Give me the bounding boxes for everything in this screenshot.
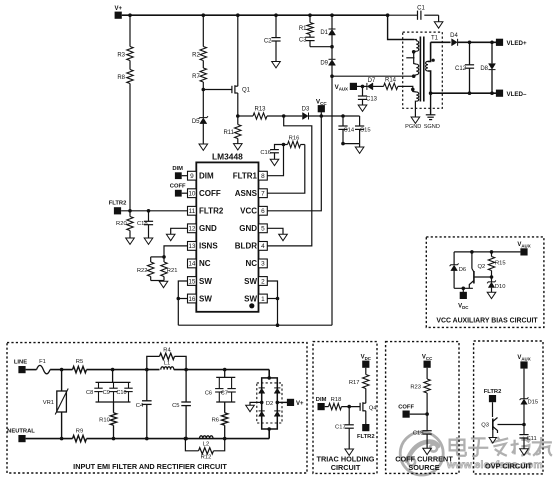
wire C3 to D1-D9 node xyxy=(310,46,332,48)
wire D9 node to transformer primary tap xyxy=(332,75,414,77)
svg-text:R21: R21 xyxy=(167,268,178,274)
wire SW vertical from D9 node xyxy=(331,76,333,325)
resistor R9 xyxy=(73,435,87,441)
wire secondary low side xyxy=(428,71,431,93)
svg-text:C6: C6 xyxy=(205,390,212,396)
svg-text:13: 13 xyxy=(188,243,196,250)
svg-text:NC: NC xyxy=(199,259,211,268)
resistor R12 bypass xyxy=(185,439,198,451)
transistor Q2 xyxy=(471,252,473,269)
svg-text:R6: R6 xyxy=(212,418,219,424)
pin 11 box xyxy=(188,206,197,215)
node VLED- terminal xyxy=(496,90,503,97)
node D9 anode junction xyxy=(331,65,333,76)
capacitor C14 xyxy=(341,114,345,118)
resistor R21 xyxy=(163,257,165,262)
node V+ input terminal xyxy=(115,12,122,19)
svg-text:V+: V+ xyxy=(296,401,304,407)
resistor R2 xyxy=(202,15,204,46)
wire to bridge top xyxy=(268,370,270,378)
svg-text:C18: C18 xyxy=(137,221,148,227)
svg-text:DIM: DIM xyxy=(172,166,183,172)
svg-text:R3: R3 xyxy=(117,53,125,59)
svg-text:ASNS: ASNS xyxy=(235,189,258,198)
capacitor bank C8 C9 C10 buses xyxy=(112,370,114,383)
transformer primary winding lower xyxy=(414,52,417,64)
capacitor C12 xyxy=(469,42,471,65)
ground below C18 xyxy=(144,238,153,244)
pin 12 box xyxy=(188,224,197,233)
pin 1 box xyxy=(259,294,268,303)
transformer auxiliary winding xyxy=(398,86,417,92)
svg-text:9: 9 xyxy=(190,173,194,180)
wire pin 4 BLDR xyxy=(267,116,312,246)
transformer secondary winding xyxy=(426,61,428,71)
svg-text:SGND: SGND xyxy=(424,124,440,130)
svg-text:15: 15 xyxy=(188,278,196,285)
svg-text:R18: R18 xyxy=(331,397,342,403)
node VAUX terminal xyxy=(350,83,357,90)
svg-text:D9: D9 xyxy=(320,61,328,67)
svg-text:FLTR2: FLTR2 xyxy=(199,207,224,216)
svg-text:14: 14 xyxy=(188,261,196,268)
wire F1 to VR1 node xyxy=(50,369,72,371)
diode D8 xyxy=(491,42,493,63)
wire bottom rail xyxy=(87,438,270,440)
svg-text:D8: D8 xyxy=(480,66,488,72)
svg-text:D10: D10 xyxy=(495,284,506,290)
ground below C15 xyxy=(359,144,361,147)
node V+ output terminal xyxy=(287,399,294,406)
svg-text:R10: R10 xyxy=(99,418,110,424)
svg-text:1: 1 xyxy=(261,296,265,303)
svg-text:VR1: VR1 xyxy=(43,400,54,406)
wire sense resistor common xyxy=(151,280,164,282)
wire bias bottom xyxy=(454,287,473,289)
capacitor C4 xyxy=(146,370,148,401)
wire pin 7 ASNS xyxy=(267,145,305,194)
varistor VR1 xyxy=(61,370,63,391)
svg-text:DIM: DIM xyxy=(199,172,214,181)
wire R8 to FLTR2 node xyxy=(129,84,131,211)
bridge diode upper right xyxy=(274,387,280,389)
diode D1 xyxy=(331,15,333,29)
ground below C19 xyxy=(423,448,432,454)
watermark logo circle xyxy=(400,432,443,475)
resistor R17 xyxy=(365,368,367,375)
svg-text:VAUX: VAUX xyxy=(517,242,530,248)
wire L1 to C6 node xyxy=(174,369,269,371)
svg-text:PGND: PGND xyxy=(405,124,421,130)
zener diode D5 xyxy=(202,90,204,118)
svg-text:LM3448: LM3448 xyxy=(212,151,243,161)
svg-text:R8: R8 xyxy=(117,75,125,81)
resistor R3 xyxy=(129,15,131,46)
wire FLTR2 to pin 11 xyxy=(121,210,187,212)
capacitor C15 xyxy=(359,116,361,126)
svg-text:VCC AUXILIARY BIAS CIRCUIT: VCC AUXILIARY BIAS CIRCUIT xyxy=(436,317,538,324)
ground below C13 xyxy=(358,105,367,111)
svg-text:L1: L1 xyxy=(164,360,170,366)
svg-text:SW: SW xyxy=(199,277,212,286)
pin 13 box xyxy=(188,242,197,251)
svg-text:Q2: Q2 xyxy=(478,264,486,270)
op-amp U1 LM3448 controller IC body xyxy=(196,162,258,311)
wire SW pins 1 2 bracket xyxy=(267,281,277,325)
dashed box OVP circuit xyxy=(474,341,543,474)
wire R15 to base node xyxy=(491,271,493,282)
svg-text:SW: SW xyxy=(244,277,257,286)
resistor R14 xyxy=(373,85,384,87)
wire SW pins 15 16 bracket xyxy=(178,281,187,325)
resistor R8 xyxy=(129,61,131,70)
node VCC terminal xyxy=(320,112,322,116)
diode D4 xyxy=(457,39,459,46)
bridge rectifier D2 outline xyxy=(262,378,278,429)
ground SGND xyxy=(426,114,436,116)
resistor R16 xyxy=(284,144,288,146)
node COFF terminal xyxy=(175,190,182,197)
pin 7 box xyxy=(259,189,268,198)
svg-text:10: 10 xyxy=(188,191,196,198)
pin 3 box xyxy=(259,259,268,268)
ground below C17 xyxy=(345,449,354,455)
wire C14 C15 common xyxy=(343,143,360,145)
resistor R15 xyxy=(491,252,493,257)
wire R23 to COFF node xyxy=(426,393,428,431)
svg-text:SW: SW xyxy=(199,294,212,303)
ground at bridge xyxy=(246,405,255,411)
svg-text:R14: R14 xyxy=(385,78,397,84)
svg-text:12: 12 xyxy=(188,226,196,233)
resistor R5 xyxy=(73,366,87,372)
wire COFF to node xyxy=(410,413,427,415)
svg-text:COFF: COFF xyxy=(199,189,221,198)
wire R13 to BLDR node xyxy=(267,115,302,117)
resistor R10 xyxy=(113,402,115,413)
svg-text:C5: C5 xyxy=(172,403,179,409)
svg-text:4: 4 xyxy=(261,243,265,250)
svg-text:VCC: VCC xyxy=(422,355,433,361)
resistor R18 xyxy=(325,406,329,408)
svg-text:C11: C11 xyxy=(527,436,537,442)
svg-text:T1: T1 xyxy=(431,36,439,42)
svg-text:7: 7 xyxy=(261,191,265,198)
node DIM terminal xyxy=(175,172,182,179)
ground below C11 xyxy=(520,449,529,455)
node VCC terminal current source xyxy=(424,361,431,368)
svg-text:D4: D4 xyxy=(450,33,458,39)
resistor R23 xyxy=(426,368,428,379)
svg-text:C9: C9 xyxy=(103,390,110,396)
wire R5 to cap bank xyxy=(87,369,160,371)
wire pin 5 GND xyxy=(267,228,283,234)
wire bridge to V+ out xyxy=(277,401,287,403)
wire pin 12 GND xyxy=(171,228,188,234)
svg-text:D7: D7 xyxy=(368,78,376,84)
diode D9 xyxy=(329,58,336,60)
svg-text:D3: D3 xyxy=(302,107,310,113)
svg-text:D1: D1 xyxy=(320,30,328,36)
transistor Q1 N-MOSFET xyxy=(237,15,239,86)
svg-text:ISNS: ISNS xyxy=(199,242,218,251)
svg-text:GND: GND xyxy=(199,224,217,233)
bridge diode upper left xyxy=(259,387,265,389)
svg-text:C4: C4 xyxy=(136,403,144,409)
svg-text:VLED–: VLED– xyxy=(507,91,528,98)
wire bridge to ground arrow xyxy=(250,402,262,405)
svg-text:C17: C17 xyxy=(335,425,346,431)
node D1-D9 junction xyxy=(331,35,333,59)
ground below sense resistors xyxy=(159,281,168,287)
pin 4 box xyxy=(259,242,268,251)
capacitor C8 xyxy=(98,382,100,388)
resistor R22 xyxy=(150,257,152,262)
svg-text:V+: V+ xyxy=(114,6,122,12)
wire D3 to VCC node xyxy=(309,115,360,117)
wire V+ rail to transformer primary xyxy=(388,15,415,39)
svg-text:COFF: COFF xyxy=(398,404,414,410)
svg-text:R23: R23 xyxy=(410,385,421,391)
resistor R7 xyxy=(202,61,204,69)
svg-text:R9: R9 xyxy=(76,429,83,435)
svg-text:VDC: VDC xyxy=(361,355,372,361)
svg-text:C1: C1 xyxy=(417,6,425,12)
svg-text:VDC: VDC xyxy=(458,304,469,310)
capacitor C13 xyxy=(362,86,364,96)
svg-text:6: 6 xyxy=(261,208,265,215)
watermark text xyxy=(446,437,552,471)
capacitor C5 xyxy=(185,370,187,402)
node VAUX terminal bias xyxy=(520,248,527,255)
node NEUTRAL terminal xyxy=(18,435,25,442)
ground below C1 xyxy=(438,15,440,22)
wire pin 8 FLTR1 xyxy=(267,145,283,176)
svg-text:R12: R12 xyxy=(201,455,212,461)
svg-text:R1: R1 xyxy=(299,26,307,32)
resistor R20 xyxy=(129,211,131,217)
svg-text:C10: C10 xyxy=(116,390,126,396)
node bridge mid-left junction xyxy=(260,401,264,405)
wire R7 to Q1 gate node xyxy=(202,82,204,90)
transformer primary tap stub xyxy=(406,57,414,59)
node FLTR2 OVP terminal xyxy=(489,395,496,402)
bridge rectifier D2 dashed box xyxy=(257,383,282,423)
diode D3 xyxy=(308,113,310,120)
wire D15 to OVP node xyxy=(523,404,525,434)
pin 6 box xyxy=(259,206,268,215)
transformer T1 dashed box xyxy=(403,32,443,108)
svg-text:SW: SW xyxy=(244,294,257,303)
pin 5 box xyxy=(259,224,268,233)
node VLED+ terminal xyxy=(496,39,503,46)
svg-text:R22: R22 xyxy=(137,268,148,274)
svg-text:R17: R17 xyxy=(349,380,360,386)
svg-text:Q1: Q1 xyxy=(242,88,251,94)
pin 1 marker dot xyxy=(249,303,254,308)
capacitor C1 xyxy=(388,14,418,16)
svg-text:D15: D15 xyxy=(528,400,539,406)
pin 14 box xyxy=(188,259,197,268)
svg-text:C2: C2 xyxy=(264,39,272,45)
svg-text:C12: C12 xyxy=(455,66,467,72)
capacitor C19 xyxy=(423,430,432,432)
ground below Q3 xyxy=(489,438,496,444)
svg-text:C16: C16 xyxy=(260,150,271,156)
svg-text:Q4: Q4 xyxy=(369,406,378,412)
ground pin 5 xyxy=(279,234,288,240)
ground PGND xyxy=(411,117,420,123)
wire gate node to Q1 xyxy=(203,89,231,91)
dashed box input EMI filter and rectifier circuit xyxy=(7,343,307,473)
svg-text:COFF: COFF xyxy=(170,184,186,190)
inductor L1 xyxy=(161,367,174,370)
node DIM lower terminal xyxy=(318,403,325,410)
wire pin 6 VCC xyxy=(267,116,321,211)
transistor Q4 MOSFET xyxy=(365,389,367,404)
junction dots on V+ rail xyxy=(128,13,132,17)
diode D7 xyxy=(366,83,368,90)
svg-text:F1: F1 xyxy=(39,359,46,365)
svg-text:FLTR2: FLTR2 xyxy=(357,434,375,440)
svg-text:L2: L2 xyxy=(203,442,209,448)
capacitor C2 xyxy=(275,15,277,37)
wire VAUX bias rail xyxy=(454,251,520,253)
svg-text:OVP CIRCUIT: OVP CIRCUIT xyxy=(485,461,532,470)
ground below C2 xyxy=(272,62,281,68)
svg-text:NC: NC xyxy=(245,259,257,268)
ground below D10 xyxy=(487,292,496,298)
svg-text:FLTR2: FLTR2 xyxy=(484,389,502,395)
node bridge mid-right junction xyxy=(276,401,280,405)
svg-text:VLED+: VLED+ xyxy=(507,40,528,47)
zener diode D10 xyxy=(487,281,496,284)
capacitor C10 xyxy=(128,382,130,388)
capacitor C17 xyxy=(348,407,350,425)
node FLTR2 lower terminal xyxy=(362,424,369,431)
svg-text:C13: C13 xyxy=(366,97,378,103)
svg-text:8: 8 xyxy=(261,173,265,180)
wire SW bottom run xyxy=(178,324,332,326)
node LINE terminal xyxy=(18,366,25,373)
svg-text:Q3: Q3 xyxy=(481,423,489,429)
svg-text:VAUX: VAUX xyxy=(517,355,530,361)
node VAUX terminal OVP xyxy=(520,361,527,368)
ground below D5 xyxy=(202,124,204,144)
svg-text:C19: C19 xyxy=(413,431,424,437)
node VDC terminal bias xyxy=(462,288,464,292)
inductor L2 xyxy=(200,436,214,439)
svg-text:C15: C15 xyxy=(360,127,371,133)
ground pin 12 xyxy=(166,234,175,240)
resistor R6 xyxy=(224,402,226,413)
ground below R20 xyxy=(129,231,131,239)
svg-text:CIRCUIT: CIRCUIT xyxy=(331,463,361,472)
svg-text:DIM: DIM xyxy=(316,397,327,403)
svg-text:C14: C14 xyxy=(344,127,355,133)
svg-text:C3: C3 xyxy=(299,38,307,44)
svg-text:16: 16 xyxy=(188,296,196,303)
svg-text:D6: D6 xyxy=(459,267,466,273)
resistor R1 xyxy=(309,15,311,22)
node COFF lower terminal xyxy=(403,411,410,418)
svg-text:R13: R13 xyxy=(254,107,266,113)
svg-text:BLDR: BLDR xyxy=(235,242,257,251)
svg-text:GND: GND xyxy=(239,224,257,233)
fuse F1 xyxy=(26,369,37,371)
svg-text:D5: D5 xyxy=(192,119,200,125)
svg-text:R5: R5 xyxy=(76,359,83,365)
dashed box TRIAC holding circuit xyxy=(313,342,377,474)
svg-text:C8: C8 xyxy=(86,390,93,396)
wire VLED- rail xyxy=(431,92,496,94)
pin 8 box xyxy=(259,171,268,180)
pin 9 box xyxy=(188,171,197,180)
svg-text:11: 11 xyxy=(189,208,196,215)
capacitor C11 xyxy=(519,434,528,436)
wire NEUTRAL to R9 xyxy=(26,438,73,440)
resistor R4 bypass xyxy=(147,356,160,369)
node FLTR2 terminal xyxy=(114,207,121,214)
capacitor C3 xyxy=(309,35,311,38)
transformer primary winding upper xyxy=(414,40,416,41)
svg-text:2: 2 xyxy=(261,278,265,285)
svg-text:INPUT EMI FILTER AND RECTIFIER: INPUT EMI FILTER AND RECTIFIER CIRCUIT xyxy=(73,462,227,471)
svg-text:R20: R20 xyxy=(116,221,127,227)
pin 15 box xyxy=(188,277,197,286)
wire VAUX node xyxy=(357,85,367,87)
svg-text:3: 3 xyxy=(261,261,265,268)
dashed box VCC auxiliary bias circuit xyxy=(426,237,544,328)
capacitor C16 xyxy=(275,145,284,150)
bridge diode lower right xyxy=(274,410,280,412)
bridge diode lower left xyxy=(259,410,265,412)
zener diode D6 xyxy=(453,252,455,265)
dashed box COFF current source xyxy=(386,342,459,474)
resistor R11 xyxy=(237,116,239,125)
svg-text:LINE: LINE xyxy=(14,360,27,366)
pin 16 box xyxy=(188,294,197,303)
svg-text:R7: R7 xyxy=(192,74,200,80)
capacitor C18 xyxy=(148,211,150,222)
svg-text:VCC: VCC xyxy=(240,207,257,216)
wire bridge bottom xyxy=(267,427,271,431)
transistor Q3 xyxy=(492,402,494,417)
capacitor C9 xyxy=(113,382,115,388)
wire pin 13 ISNS to sense resistors xyxy=(164,246,188,257)
ground below C16 xyxy=(270,159,279,165)
wire D4 to VLED+ xyxy=(458,41,496,43)
svg-text:R2: R2 xyxy=(192,53,200,59)
svg-text:R16: R16 xyxy=(289,136,300,142)
svg-text:5: 5 xyxy=(261,226,265,233)
svg-text:R15: R15 xyxy=(495,261,506,267)
capacitor bank C6 C7 buses xyxy=(224,370,226,378)
capacitor C7 xyxy=(231,377,233,388)
svg-text:C7: C7 xyxy=(221,390,228,396)
svg-text:FLTR1: FLTR1 xyxy=(233,172,258,181)
node Q1 source junction xyxy=(236,114,240,118)
svg-text:D2: D2 xyxy=(266,401,273,407)
zener diode D15 xyxy=(523,369,525,399)
wire top V+ rail xyxy=(122,14,388,16)
svg-text:SOURCE: SOURCE xyxy=(408,463,439,472)
svg-text:R4: R4 xyxy=(163,348,171,354)
svg-text:NEUTRAL: NEUTRAL xyxy=(7,429,35,435)
node VDC terminal xyxy=(362,361,369,368)
svg-text:FLTR2: FLTR2 xyxy=(109,200,127,206)
resistor R13 xyxy=(238,115,253,117)
